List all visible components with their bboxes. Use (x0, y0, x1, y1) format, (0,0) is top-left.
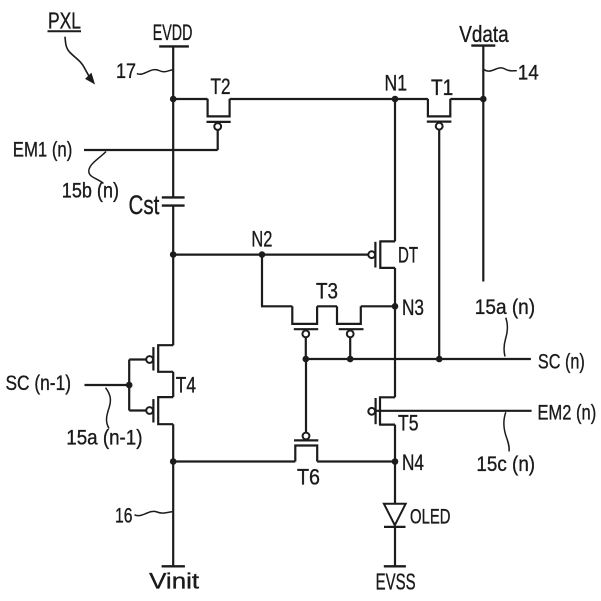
label Cst (129, 190, 160, 220)
pointer squiggle 15b(n) to EM1 line (89, 152, 106, 184)
svg-text:15a (n-1): 15a (n-1) (66, 427, 142, 450)
svg-text:17: 17 (116, 60, 136, 83)
wire EVDD rail between T4a T4b (172, 372, 174, 397)
wire top row EVDD to T2 (173, 98, 207, 100)
label 15a(n) (475, 296, 535, 319)
label T6 (297, 465, 320, 490)
node N2 dot (259, 251, 266, 258)
wire spine T5 to OLED (394, 425, 396, 504)
svg-text:EM2 (n): EM2 (n) (538, 401, 597, 424)
pointer squiggle 16 to rail (135, 511, 173, 515)
svg-text:T2: T2 (211, 74, 231, 99)
node N3 dot (392, 303, 399, 310)
svg-text:N1: N1 (385, 71, 408, 96)
label T3 (316, 279, 338, 304)
transistor T1 (427, 99, 452, 359)
svg-text:SC (n-1): SC (n-1) (6, 372, 72, 395)
svg-text:T4: T4 (176, 373, 196, 398)
svg-text:OLED: OLED (410, 505, 451, 528)
transistor T6 (294, 433, 318, 462)
wire EVDD rail upper (172, 46, 174, 197)
svg-text:EM1 (n): EM1 (n) (13, 138, 73, 161)
power terminal EVDD (153, 20, 193, 45)
pointer squiggle 15a(n) to SC(n) (504, 318, 507, 357)
wire EVDD rail mid (172, 206, 174, 346)
label DT (398, 243, 418, 268)
label T1 (431, 75, 453, 100)
wire EM1 row (84, 149, 218, 151)
power terminal Vinit (162, 565, 185, 567)
svg-text:N2: N2 (251, 227, 272, 252)
label PXL (48, 7, 81, 33)
wire T6 left to rail (173, 460, 295, 462)
svg-text:14: 14 (518, 62, 539, 85)
wire EVDD rail lower (172, 424, 174, 566)
pointer squiggle 15c(n) to EM2 (504, 412, 509, 451)
svg-text:T1: T1 (431, 75, 453, 100)
label N4 (402, 450, 424, 475)
label SC(n-1) (6, 372, 72, 395)
svg-text:EVDD: EVDD (153, 20, 193, 45)
svg-text:T5: T5 (398, 411, 419, 436)
svg-text:T6: T6 (297, 465, 320, 490)
capacitor Cst (162, 197, 185, 205)
junction dot T3a gate (303, 356, 310, 363)
label T4 (176, 373, 196, 398)
power terminal EVSS (384, 565, 406, 567)
transistor T5 (368, 396, 395, 425)
label N3 (402, 295, 424, 320)
wire spine N1 to DT (394, 99, 396, 241)
wire SC(n-1) (85, 384, 130, 386)
wire N2 row (173, 254, 368, 256)
junction dot rail/T6 (170, 458, 177, 465)
label 16 (115, 505, 133, 528)
svg-text:N3: N3 (402, 295, 424, 320)
svg-text:15c (n): 15c (n) (476, 453, 535, 476)
wire Vdata column (482, 46, 484, 282)
wire N2 down to T3 (262, 255, 292, 307)
svg-text:T3: T3 (316, 279, 338, 304)
junction dot Vdata/T1 (480, 96, 487, 103)
label 15a(n-1) (66, 427, 142, 450)
svg-text:EVSS: EVSS (376, 569, 416, 595)
svg-text:16: 16 (115, 505, 133, 528)
pointer squiggle 15a(n-1) to SC(n-1) (106, 388, 111, 429)
svg-text:Vdata: Vdata (459, 21, 509, 47)
pointer squiggle 14 to Vdata column (484, 68, 517, 71)
power terminal Vdata (459, 21, 509, 47)
PXL pointer arrow (65, 37, 94, 84)
wire spine DT to T5 (394, 268, 396, 397)
wire top row T2 to Vdata (230, 98, 484, 100)
svg-text:15b (n): 15b (n) (62, 180, 119, 203)
transistor T2 (207, 99, 231, 150)
wire EM2 row (373, 410, 532, 412)
svg-text:Vinit: Vinit (149, 569, 199, 594)
junction dot EVDD/T2 (170, 96, 177, 103)
junction dot rail/N2 (170, 251, 177, 258)
wire SC(n) row (306, 358, 531, 360)
node N1 dot (392, 96, 399, 103)
label 17 (116, 60, 136, 83)
label SC(n) (538, 351, 585, 374)
junction dot T3b gate (347, 356, 354, 363)
wire SC(n) down to T6 gate (305, 359, 307, 433)
svg-text:N4: N4 (402, 450, 424, 475)
label T2 (211, 74, 231, 99)
label T5 (398, 411, 419, 436)
transistor T3 (dual gate) (292, 306, 395, 359)
wire T6 right to N4 (317, 460, 395, 462)
junction dot SC(n-1)/T4 gate bus (126, 382, 133, 389)
label EM2(n) (538, 401, 597, 424)
svg-text:15a (n): 15a (n) (475, 296, 535, 319)
pointer squiggle 17 to EVDD rail (137, 70, 173, 75)
svg-text:Cst: Cst (129, 190, 160, 220)
transistor DT (368, 240, 395, 269)
junction dot T1 gate (436, 356, 443, 363)
diode OLED (384, 504, 406, 567)
label N2 (251, 227, 272, 252)
label EM1(n) (13, 138, 73, 161)
label 15c(n) (476, 453, 535, 476)
label 14 (518, 62, 539, 85)
PXL underline (48, 30, 82, 32)
svg-text:SC (n): SC (n) (538, 351, 585, 374)
svg-text:PXL: PXL (48, 7, 81, 33)
label N1 (385, 71, 408, 96)
svg-text:DT: DT (398, 243, 418, 268)
label OLED (410, 505, 451, 528)
node N4 dot (392, 458, 399, 465)
label 15b(n) (62, 180, 119, 203)
transistor T4 (dual gate) (129, 345, 173, 424)
